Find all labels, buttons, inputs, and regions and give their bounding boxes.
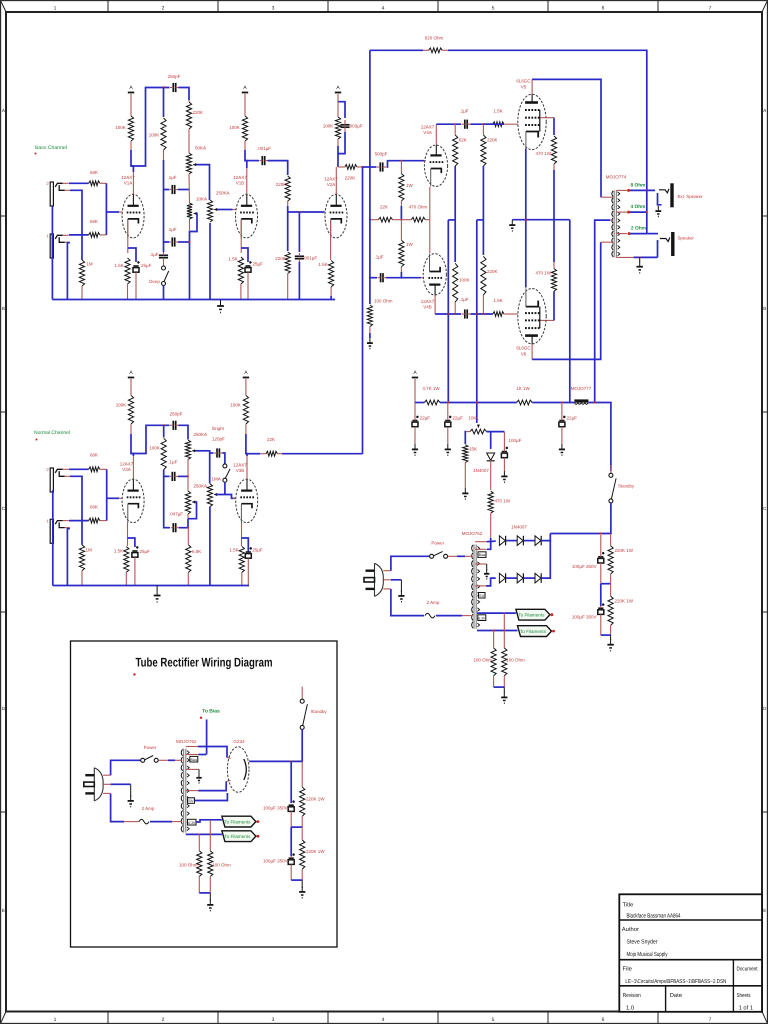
GZ34 rectifier tube	[227, 747, 249, 793]
wire node to diode	[490, 432, 492, 449]
junction junction feedback .1uF	[369, 277, 371, 279]
lead OT sec 2ohm	[616, 233, 627, 235]
resistor 470 1W V6 screen	[551, 262, 556, 291]
capacitor 100uF bias	[501, 432, 508, 471]
svg-text:Standby: Standby	[618, 484, 635, 489]
resistor 62K PI	[453, 124, 458, 166]
svg-text:220K 1W: 220K 1W	[306, 849, 325, 854]
svg-text:22µF: 22µF	[567, 416, 578, 421]
wire jack2 tip normal	[69, 468, 89, 470]
resistor 1.5K V1A cathode	[125, 258, 130, 300]
junction junction feedback tap	[646, 189, 648, 191]
wire feedback right to 8 ohm tap	[448, 50, 647, 190]
wire plate node jog to 250pF	[131, 425, 170, 453]
svg-text:3: 3	[272, 6, 275, 12]
lead standby top	[610, 465, 612, 473]
svg-text:100µF 350V: 100µF 350V	[263, 806, 288, 811]
lead PT primary top	[465, 555, 473, 557]
resistor 470 Ohm cathode	[401, 217, 430, 222]
junction junction 220K bottom	[482, 313, 484, 315]
lead V1B plate	[246, 168, 248, 194]
resistor 220K 1W bleeder 1	[608, 534, 613, 584]
svg-text:2: 2	[162, 1017, 165, 1023]
resistor 1.5K V2A cathode	[329, 261, 334, 300]
jack Speaker jack	[660, 232, 675, 256]
junction junction screen node	[553, 219, 555, 221]
lead power switch out	[448, 555, 457, 557]
resistor 1.5K V1B cathode	[238, 257, 243, 300]
jack J1 bass	[50, 234, 70, 258]
svg-text:6.3V: 6.3V	[188, 821, 196, 825]
svg-text:22µF: 22µF	[453, 416, 464, 421]
svg-text:V5: V5	[521, 85, 527, 90]
ground bass bus	[217, 300, 224, 312]
resistor 68K bass upper	[89, 181, 107, 186]
potentiometer 50KA bass treble pot	[186, 153, 196, 174]
wire to bias down	[206, 719, 208, 754]
wire 2 ohm tap	[630, 233, 647, 235]
capacitor 250pF bass treble	[170, 83, 179, 92]
resistor 220K 1W bleeder 2	[608, 584, 613, 635]
resistor 4.7K 1W dropper	[424, 400, 440, 405]
capacitor .1uF PI lower	[462, 309, 471, 318]
resistor 220K bass tone	[186, 100, 191, 136]
wire GZ34 out stub	[248, 760, 250, 762]
junction junction 62K top	[454, 123, 456, 125]
wire jack2 tip to R 68K	[69, 182, 89, 184]
svg-text:1.5K: 1.5K	[114, 549, 123, 554]
svg-text:100µF: 100µF	[509, 438, 522, 443]
jack J2 bass	[50, 182, 70, 206]
svg-text:Bright: Bright	[212, 426, 225, 431]
wire 220K to grid row	[287, 206, 289, 212]
potentiometer 250KA normal volume	[185, 440, 195, 459]
svg-text:To Filaments: To Filaments	[518, 613, 545, 618]
junction normal channel marker	[36, 439, 38, 441]
potentiometer 1MA normal	[207, 484, 217, 507]
capacitor .001uF bass shunt	[295, 253, 304, 262]
svg-text:Normal Channel: Normal Channel	[34, 430, 70, 436]
lead bias pot left	[466, 431, 470, 433]
svg-text:Speaker: Speaker	[678, 236, 695, 241]
svg-text:Document: Document	[737, 967, 758, 973]
wire 250pF to volume pot	[179, 425, 189, 439]
lead HV1 tap	[475, 541, 487, 543]
wire junction to 100K tone	[163, 425, 165, 437]
wire jack2 body to bus	[51, 206, 53, 300]
svg-text:V1A: V1A	[124, 181, 133, 186]
svg-text:A: A	[2, 108, 5, 113]
wire HV1 to GZ34 plate 1	[198, 747, 227, 758]
wire D2 to D3	[524, 540, 535, 542]
ground power cathode ground	[509, 220, 515, 231]
switch Bright switch	[223, 464, 230, 482]
svg-text:Sheets: Sheets	[737, 992, 751, 999]
wire speaker shunt down	[658, 241, 659, 257]
lead V3B cathode	[241, 523, 243, 547]
diode 1N4007 D2	[517, 536, 523, 546]
capacitor 22uF filter 1	[412, 403, 419, 445]
svg-text:22K: 22K	[380, 205, 388, 210]
lead V3A plate	[132, 456, 134, 479]
svg-text:4.7K 1W: 4.7K 1W	[422, 386, 440, 391]
lead OT primary top	[601, 196, 613, 198]
terminal box Bias tap	[478, 552, 486, 558]
svg-text:68K: 68K	[90, 219, 98, 224]
wire cathode hook to 25uF	[128, 248, 136, 262]
lead V1A cathode	[127, 221, 129, 254]
wire jack1 tip to R 68K	[69, 234, 89, 236]
svg-text:.001µF: .001µF	[303, 256, 317, 261]
capacitor 25uF V1A cathode	[133, 261, 140, 299]
svg-text:3: 3	[272, 1017, 275, 1023]
svg-text:.1µF: .1µF	[149, 252, 158, 257]
svg-text:100K: 100K	[149, 446, 160, 451]
choke MOJO777 choke	[574, 399, 588, 404]
svg-text:250KA: 250KA	[194, 484, 208, 489]
wire 1MA wiper to V3B grid	[217, 495, 236, 499]
wire 220K column down	[482, 166, 484, 255]
svg-text:12AX7: 12AX7	[421, 299, 435, 304]
lead rect humdinger gnd	[209, 893, 211, 901]
lead bias tap rect	[186, 754, 199, 756]
wire humdinger bottom	[494, 686, 505, 688]
wire .1uF row to V4B grid	[386, 277, 421, 279]
junction junction bleeder top	[600, 532, 602, 534]
resistor 820 Ohm feedback	[423, 48, 448, 53]
capacitor 100uF 350V rect 1	[288, 800, 295, 827]
svg-text:Bias: Bias	[191, 758, 198, 762]
svg-text:Power: Power	[431, 541, 444, 546]
lead rect plug gnd	[130, 784, 132, 797]
svg-text:100µF 350V: 100µF 350V	[572, 615, 597, 620]
wire cap to 1.5K lower	[471, 313, 493, 315]
svg-text:8 Ohm: 8 Ohm	[631, 183, 646, 189]
lead bias tap	[475, 548, 487, 550]
svg-text:LE~1\Circuits\Amps\BFBASS~1\BF: LE~1\Circuits\Amps\BFBASS~1\BFBASS~2.DSN	[625, 978, 726, 985]
svg-text:1.0: 1.0	[626, 1005, 634, 1012]
capacitor .1uF bass 1	[170, 185, 178, 194]
svg-text:Deep: Deep	[149, 279, 160, 284]
wire bass ground bus	[52, 299, 335, 301]
resistor 100 Ohm humdinger 1	[491, 631, 496, 688]
svg-text:15K: 15K	[469, 447, 477, 452]
svg-text:MOJO762: MOJO762	[462, 531, 483, 536]
svg-text:5V: 5V	[188, 799, 194, 803]
svg-text:100µF 350V: 100µF 350V	[263, 859, 288, 864]
svg-text:Date: Date	[670, 993, 682, 999]
svg-text:1M: 1M	[86, 262, 93, 267]
resistor 100 Ohm rect 1	[197, 834, 202, 893]
wire cap to 1.5K	[471, 123, 493, 125]
lead HV1 tap rect	[186, 746, 198, 748]
svg-text:100K: 100K	[230, 403, 241, 408]
wire bright switch out	[224, 482, 226, 494]
resistor 220K bass div upper	[285, 176, 290, 206]
wire filament 2	[477, 630, 518, 632]
resistor 22K normal mixer	[261, 451, 282, 456]
svg-text:100K: 100K	[116, 403, 127, 408]
svg-text:Steve Snyder: Steve Snyder	[627, 939, 658, 946]
wire screen node down to supply	[569, 220, 571, 403]
svg-text:5: 5	[492, 6, 495, 12]
svg-text:B: B	[763, 306, 766, 311]
capacitor 100uF 350V 2	[598, 603, 605, 635]
wire to .001uF shunt	[298, 212, 300, 252]
lead V2A cathode	[330, 221, 332, 261]
wire jack2 ring normal	[70, 476, 82, 545]
wire .047uF to column	[179, 527, 188, 529]
ground plug ground	[398, 591, 404, 602]
resistor 470 1W bias	[488, 491, 493, 538]
flag To Filaments rect 2	[222, 831, 259, 842]
wire 62K column down	[454, 166, 456, 262]
wire plug to fuse	[391, 589, 424, 616]
junction hop PI supply column	[447, 313, 449, 315]
wire HV2 to GZ34 plate 2	[198, 782, 226, 791]
resistor 1.5K V6 grid stopper	[493, 312, 518, 317]
resistor 68K normal lower	[89, 518, 107, 523]
svg-text:220K 1W: 220K 1W	[615, 599, 634, 604]
resistor 100K PI lower	[453, 263, 458, 314]
lead 50KA top	[188, 136, 190, 153]
lead standby rect bottom	[301, 729, 303, 740]
svg-text:Bass Channel: Bass Channel	[35, 145, 67, 151]
svg-text:12AX7: 12AX7	[233, 175, 247, 180]
lead V3A grid	[119, 497, 123, 499]
transformer MOJO774 output transformer	[612, 190, 620, 257]
lead tone pot bottom	[187, 514, 189, 519]
junction junction rect cap1	[290, 760, 292, 762]
svg-text:68K: 68K	[90, 505, 98, 510]
wire filament 1 rect	[196, 820, 222, 822]
lead V6 screen	[540, 319, 554, 321]
wire V3A plate node	[131, 434, 133, 456]
lead rect power out	[158, 759, 168, 761]
lead tone pot top	[187, 476, 189, 491]
lead pots column	[188, 174, 191, 203]
svg-text:.1µF: .1µF	[167, 175, 176, 180]
wire mix node to 500pF	[363, 166, 377, 168]
svg-text:50KA: 50KA	[195, 146, 206, 151]
wire OT secondary common	[634, 256, 658, 258]
svg-text:1 of 1: 1 of 1	[739, 1005, 754, 1012]
resistor 220K 1W rect 2	[300, 827, 305, 880]
resistor 1M bass	[79, 260, 84, 300]
potentiometer 250KA normal tone	[185, 491, 195, 514]
junction bass channel marker	[35, 153, 37, 155]
svg-text:5: 5	[492, 1017, 495, 1023]
wire bleeder bottom row	[601, 634, 611, 636]
svg-text:Ext. Speaker: Ext. Speaker	[678, 194, 704, 199]
resistor 68K bass lower	[89, 233, 107, 238]
capacitor 22uF filter 3	[559, 403, 566, 445]
potentiometer 250KA bass volume	[207, 200, 217, 222]
ground ext speaker	[655, 206, 661, 217]
wire feedback left	[370, 49, 423, 51]
lead OT primary bottom	[601, 241, 613, 243]
svg-text:E: E	[763, 908, 766, 913]
resistor 100K normal tone	[161, 438, 166, 469]
wire plug neutral	[391, 579, 402, 581]
resistor 1M normal	[79, 545, 84, 586]
svg-text:22K: 22K	[267, 437, 275, 442]
wire 250KA bottom to bus	[209, 223, 211, 300]
svg-text:2: 2	[162, 6, 165, 12]
ground bleeder stack	[607, 639, 613, 651]
lead bias diode bottom	[490, 460, 492, 490]
wire 68K lower to grid node	[105, 212, 107, 235]
wire PI bias column	[476, 220, 478, 423]
svg-text:25µF: 25µF	[141, 263, 152, 268]
resistor 100 Ohm rect 2	[208, 851, 213, 893]
junction junction screen supply	[561, 401, 563, 403]
lead V4A grid	[424, 160, 426, 162]
diode 1N4007 D5	[517, 573, 523, 583]
svg-text:470 1W: 470 1W	[535, 271, 551, 276]
svg-text:B: B	[2, 306, 5, 311]
wire 220K top tap	[483, 123, 504, 125]
capacitor 250pF normal	[170, 421, 179, 430]
wire plate node to 250pF	[131, 88, 170, 167]
ground 100uF bias	[501, 471, 507, 482]
svg-text:4: 4	[382, 1017, 385, 1023]
wire D1 to D2	[506, 540, 517, 542]
svg-text:100 Ohm: 100 Ohm	[179, 863, 198, 868]
svg-text:1W: 1W	[406, 183, 414, 188]
svg-text:470 1W: 470 1W	[535, 151, 551, 156]
resistor 100K V2A plate	[335, 94, 340, 146]
resistor 22K feedback	[370, 217, 402, 222]
wire to bright cap	[210, 452, 214, 454]
svg-text:25µF: 25µF	[252, 548, 263, 553]
lead V3B plate	[246, 456, 248, 479]
diode 1N4007 D4	[499, 573, 505, 583]
svg-text:220K 1W: 220K 1W	[615, 548, 634, 553]
wire down to deep cap	[163, 242, 165, 252]
triode V4A 12AX7	[424, 145, 447, 186]
svg-text:MOJO774: MOJO774	[606, 175, 627, 180]
switch Power switch main	[430, 552, 448, 559]
junction to bias marker	[200, 717, 202, 719]
wire plug hot to power switch	[391, 556, 430, 570]
AC plug main AC plug	[364, 563, 391, 596]
capacitor 100uF 350V rect 2	[288, 853, 295, 880]
svg-text:Power: Power	[144, 745, 157, 750]
wire bleeder column 2	[600, 584, 602, 606]
svg-text:.003µF: .003µF	[349, 124, 363, 129]
lead normal bus ground	[156, 586, 158, 591]
wire V5 V6 cathodes	[525, 149, 527, 288]
wire switch to PT	[457, 555, 465, 557]
svg-text:.1µF: .1µF	[167, 227, 176, 232]
svg-text:120pF: 120pF	[212, 437, 225, 442]
wire standby to GZ34 out	[250, 729, 303, 761]
wire 50KA wiper to 250KA	[197, 165, 210, 200]
lead V4B cathode	[429, 220, 431, 253]
svg-text:12AX7: 12AX7	[233, 463, 247, 468]
switch Deep switch	[162, 266, 169, 286]
power node A supply feed	[412, 370, 418, 377]
diode 1N4007 D6	[535, 573, 541, 583]
wire PI jog right	[477, 219, 484, 221]
wire wiper node column	[208, 451, 210, 484]
svg-text:V2A: V2A	[327, 182, 336, 187]
wire tone pot to .047uF	[187, 519, 189, 528]
svg-text:6: 6	[602, 6, 605, 12]
svg-text:22µF: 22µF	[420, 416, 431, 421]
lead V2A grid	[324, 211, 327, 213]
svg-text:.001µF: .001µF	[257, 146, 271, 151]
lead V5 plate	[531, 79, 533, 94]
lead PT primary bottom	[462, 615, 473, 617]
capacitor 120pF bright	[214, 448, 223, 457]
wire rect to cap 1	[290, 761, 292, 803]
potentiometer 10KA bass deep pot	[187, 203, 197, 219]
svg-text:250KA: 250KA	[194, 432, 208, 437]
wire .1uF to pot column	[178, 475, 188, 477]
svg-text:1N4007: 1N4007	[473, 468, 489, 473]
junction junction screen supply row	[569, 402, 571, 404]
svg-text:100 Ohm: 100 Ohm	[506, 658, 525, 663]
capacitor 500pF coupling	[377, 162, 386, 171]
wire 10KA column to bus	[189, 242, 191, 300]
lead standby rect top	[301, 687, 303, 700]
wire 500pF jog to V4A grid	[387, 161, 425, 167]
triode V1B 12AX7	[236, 194, 258, 238]
svg-text:2 Amp: 2 Amp	[142, 806, 155, 811]
wire to grid node normal	[106, 469, 108, 498]
lead V1B cathode	[240, 221, 242, 254]
lead rect PT bottom	[172, 821, 182, 823]
terminal box Bias tap rect	[190, 756, 198, 762]
junction tap 4 Ohm	[627, 211, 630, 214]
junction hop PI bias column	[476, 313, 478, 315]
svg-text:V3B: V3B	[236, 468, 245, 473]
wire standby to rectifier output	[550, 503, 611, 534]
svg-text:E: E	[2, 908, 5, 913]
power node A plate supply V3A	[128, 370, 134, 377]
wire normal ground bus	[53, 585, 249, 587]
transformer MOJO762 rect PT	[181, 749, 189, 833]
svg-text:V6: V6	[521, 352, 527, 357]
junction junction grid row V2A	[287, 211, 289, 213]
wire node to V3A grid	[107, 497, 119, 499]
resistor 470 1W V5 screen	[551, 136, 556, 170]
junction junction 100K bottom	[454, 313, 456, 315]
switch Power switch rect	[141, 756, 159, 763]
lead standby bottom	[610, 503, 612, 510]
transformer MOJO762 power transformer	[472, 544, 480, 628]
svg-text:10KL: 10KL	[468, 416, 479, 421]
lead CT ground stub	[486, 564, 488, 570]
wire 250KA wiper to V1B grid	[218, 209, 233, 211]
svg-text:2 Amp: 2 Amp	[427, 600, 440, 605]
wire 250pF to 220K	[179, 88, 190, 101]
wire jack2 ring down	[70, 190, 82, 260]
svg-text:7: 7	[709, 6, 712, 12]
lead V4A cathode	[429, 187, 431, 220]
capacitor .001uF bass coupling	[260, 156, 268, 165]
wire output jack column	[646, 190, 648, 233]
svg-text:1: 1	[54, 1017, 57, 1023]
rectifier diagram box	[71, 641, 338, 947]
wire V3B plate node	[246, 434, 247, 456]
resistor 1.5K V3A cathode	[124, 547, 129, 586]
ground normal bus	[154, 590, 161, 602]
svg-text:MOJO777: MOJO777	[571, 386, 592, 391]
resistor 220K bass div lower	[285, 252, 290, 300]
